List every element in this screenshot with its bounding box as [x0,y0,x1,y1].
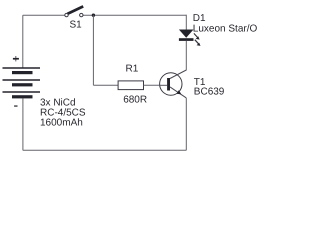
LED light arrow 2 [195,40,201,46]
svg-text:S1: S1 [70,20,83,31]
switch S1 [65,6,83,16]
svg-text:R1: R1 [126,64,139,75]
battery B1 3x NiCd [3,68,41,98]
battery plus sign [13,56,19,61]
wire bottom rail [23,149,187,151]
svg-text:680R: 680R [123,94,147,105]
node junction dot [92,14,95,17]
LED light arrow 1 [194,33,200,39]
transistor T1 [160,70,187,98]
wire resistor to transistor base [144,84,168,86]
wire to resistor left [93,84,118,86]
LED D1 [179,30,194,41]
svg-text:Luxeon Star/O: Luxeon Star/O [193,23,258,34]
wire LED cathode to collector [185,41,187,71]
wire top left from battery to switch [23,14,65,16]
resistor R1 [118,81,143,90]
wire emitter down right rail [185,98,187,150]
svg-text:BC639: BC639 [194,87,225,98]
wire top right from switch to LED rail [83,14,186,16]
wire left rail battery positive [22,15,24,67]
wire right rail to LED anode [185,15,187,30]
battery minus sign [14,105,17,106]
wire junction down to resistor level [92,15,94,85]
wire battery negative stub [22,98,24,150]
svg-text:1600mAh: 1600mAh [40,117,83,128]
